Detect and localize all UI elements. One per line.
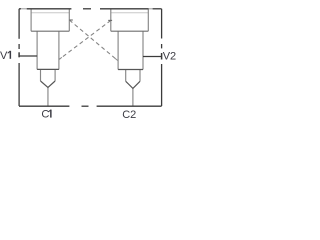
svg-text:V2: V2 xyxy=(163,51,176,63)
svg-text:V: V xyxy=(0,50,8,62)
svg-text:C: C xyxy=(41,109,49,121)
svg-text:C2: C2 xyxy=(122,109,136,121)
